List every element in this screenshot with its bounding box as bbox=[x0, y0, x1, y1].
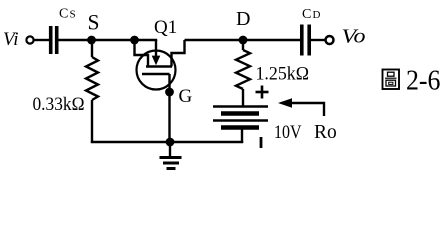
capacitor CD bbox=[300, 25, 311, 56]
svg-text:2-6: 2-6 bbox=[406, 65, 441, 97]
label Cs bbox=[59, 7, 76, 22]
svg-text:Vi: Vi bbox=[3, 29, 18, 50]
svg-text:0.33kΩ: 0.33kΩ bbox=[33, 94, 85, 115]
svg-text:S: S bbox=[70, 9, 76, 21]
node D bbox=[239, 36, 248, 45]
svg-text:C: C bbox=[302, 7, 311, 22]
input terminal bbox=[26, 36, 33, 43]
wire drain to node D bbox=[185, 39, 244, 41]
wire bbox=[243, 39, 300, 41]
wire battery to ground rail bbox=[241, 128, 243, 144]
node G bbox=[165, 88, 174, 97]
node S bbox=[87, 36, 96, 45]
capacitor Cs bbox=[49, 26, 59, 54]
svg-text:C: C bbox=[59, 7, 68, 22]
node ground junction bbox=[166, 138, 175, 147]
node FET source junction bbox=[130, 36, 139, 45]
wire bbox=[59, 39, 135, 41]
resistor 1.25k ohm bbox=[236, 40, 250, 106]
svg-text:D: D bbox=[236, 8, 250, 30]
svg-text:G: G bbox=[179, 86, 193, 107]
wire ground rail bbox=[91, 141, 243, 143]
figure label 圖 bbox=[383, 70, 400, 90]
minus tick bbox=[260, 137, 263, 148]
svg-text:1.25kΩ: 1.25kΩ bbox=[256, 64, 310, 85]
gate wire bbox=[168, 74, 170, 143]
svg-text:D: D bbox=[313, 9, 321, 21]
svg-text:10V: 10V bbox=[274, 122, 302, 143]
wire bbox=[311, 39, 326, 41]
plus sign bbox=[256, 86, 269, 99]
label CD bbox=[302, 7, 321, 22]
arrow Ro bbox=[278, 98, 324, 116]
resistor 0.33k ohm bbox=[86, 40, 98, 143]
svg-text:Q1: Q1 bbox=[154, 17, 177, 38]
wire bbox=[34, 39, 49, 41]
battery 10V bbox=[213, 107, 268, 128]
svg-text:Vo: Vo bbox=[342, 26, 366, 48]
ground bbox=[160, 142, 182, 169]
output terminal bbox=[326, 36, 334, 44]
svg-text:Ro: Ro bbox=[314, 122, 337, 143]
svg-text:S: S bbox=[88, 9, 100, 34]
wire source stub bbox=[135, 40, 149, 67]
wire to body arrow bbox=[135, 39, 158, 41]
transistor Q1 bbox=[137, 40, 185, 90]
